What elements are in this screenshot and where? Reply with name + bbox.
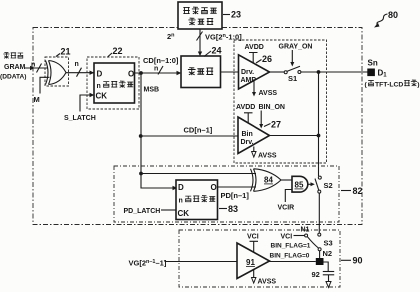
label 26 bbox=[256, 54, 272, 64]
svg-text:Bin: Bin bbox=[242, 131, 253, 138]
label 22 bbox=[108, 46, 123, 57]
svg-text:N2: N2 bbox=[323, 249, 333, 258]
svg-text:D: D bbox=[97, 70, 103, 79]
AVSS supply for 26 bbox=[252, 81, 277, 98]
svg-text:n: n bbox=[31, 62, 35, 69]
svg-text:24: 24 bbox=[212, 46, 222, 56]
svg-text:GRAY_ON: GRAY_ON bbox=[279, 44, 313, 51]
bus slash 2^n / VG[2^n-1:0] bbox=[167, 32, 242, 42]
GRAY_ON control bbox=[279, 44, 313, 67]
control arrow: gate 85 to S2 bbox=[308, 182, 315, 186]
input VG[2^n-1 -1] bbox=[129, 259, 238, 268]
label 27 bbox=[264, 120, 281, 130]
output pad Sn / D1 to TFT-LCD panel bbox=[365, 59, 420, 89]
n-bit latch 22 bbox=[94, 63, 135, 103]
PD_LATCH input bbox=[124, 208, 176, 215]
capacitor 92 bbox=[312, 262, 335, 279]
vci buffer section dashed box 90 bbox=[179, 230, 340, 287]
svg-text:TFT-LCD: TFT-LCD bbox=[375, 82, 403, 89]
input label from GRAM (DDATA) bbox=[0, 52, 27, 80]
svg-text:n: n bbox=[75, 61, 79, 68]
svg-text:VG[2n–1–1]: VG[2n–1–1] bbox=[129, 259, 167, 268]
AVDD supply for 26 bbox=[245, 44, 264, 63]
op-amp 27 Bin Drv bbox=[238, 117, 270, 154]
latch section dashed box 82 bbox=[114, 166, 339, 222]
svg-text:83: 83 bbox=[228, 204, 238, 214]
label 90 bbox=[341, 256, 363, 266]
buffer 91 bbox=[237, 243, 270, 279]
AVSS supply for 27 bbox=[252, 147, 277, 160]
svg-text:n: n bbox=[179, 198, 183, 205]
wire: output column down to S2 bbox=[318, 72, 320, 176]
svg-text:VCIR: VCIR bbox=[278, 205, 295, 212]
svg-text:S1: S1 bbox=[288, 74, 297, 83]
xor gate 84 bbox=[251, 169, 282, 192]
wire: latch22 O to decoder, CD[n-1:0] bus bbox=[135, 56, 182, 75]
latch 22 dashed box bbox=[87, 57, 139, 109]
BIN_FLAG mode labels bbox=[270, 243, 311, 260]
wire: latch83 O to xor 84, PD[n-1] bbox=[218, 187, 257, 200]
xor gate 21 bbox=[46, 61, 67, 85]
svg-text:PD_LATCH: PD_LATCH bbox=[124, 208, 161, 215]
label 21 bbox=[56, 47, 71, 57]
gray level generator box 23 bbox=[178, 2, 222, 29]
svg-text:AVDD: AVDD bbox=[236, 104, 255, 111]
svg-text:VCI: VCI bbox=[281, 234, 293, 241]
node: MSB column wire bbox=[141, 73, 177, 190]
svg-text:80: 80 bbox=[388, 10, 398, 20]
svg-text:(DDATA): (DDATA) bbox=[0, 74, 27, 81]
wire: xor84 to gate 85 bbox=[281, 179, 292, 181]
svg-text:CD[n–1]: CD[n–1] bbox=[184, 126, 213, 135]
VCIR input to gate 85 bbox=[278, 190, 295, 212]
wire: decoder to Drv.AMP bbox=[221, 71, 239, 73]
AVSS supply for 91 bbox=[252, 270, 277, 286]
wire: xor output to latch22 D with n slash bbox=[66, 61, 94, 77]
node: branch to xor 84 top input bbox=[139, 172, 256, 176]
and gate 85 bbox=[292, 176, 308, 192]
op-amp 26 Drv.AMP bbox=[239, 55, 270, 89]
svg-text:23: 23 bbox=[231, 10, 241, 20]
BIN_ON control bbox=[259, 104, 285, 129]
node MSB junction bbox=[139, 71, 159, 93]
svg-text:O: O bbox=[211, 183, 217, 192]
label 82 bbox=[341, 186, 363, 196]
svg-text:2n: 2n bbox=[167, 32, 175, 41]
amplifier section dashed box bbox=[234, 40, 327, 163]
switch S2 bbox=[315, 176, 333, 193]
svg-text:S2: S2 bbox=[324, 181, 333, 190]
outer dashed block 80 bbox=[33, 28, 362, 225]
wire: S2 down to switch S3 bbox=[318, 193, 320, 233]
svg-text:AVSS: AVSS bbox=[258, 153, 277, 160]
svg-text:D: D bbox=[178, 183, 184, 192]
input M to xor bbox=[34, 77, 50, 104]
switch S3 bbox=[308, 233, 333, 258]
wire: generator to decoder bbox=[198, 29, 202, 56]
label 23 bbox=[223, 10, 241, 20]
svg-text:O: O bbox=[128, 70, 134, 79]
AVDD supply for 27 bbox=[236, 104, 255, 123]
wire: buffer 91 to node N2 bbox=[270, 261, 316, 263]
svg-text:n: n bbox=[154, 66, 158, 73]
svg-text:82: 82 bbox=[353, 186, 363, 196]
VCI input at node N1 bbox=[281, 227, 310, 241]
VCI supply for 91 bbox=[247, 234, 259, 253]
svg-text:GRAM: GRAM bbox=[4, 64, 26, 71]
svg-text:S_LATCH: S_LATCH bbox=[64, 115, 96, 122]
svg-text:n: n bbox=[97, 83, 101, 90]
wire: Bin Drv output to output column bbox=[270, 134, 321, 138]
switch S1 bbox=[270, 66, 301, 83]
svg-text:AVSS: AVSS bbox=[258, 279, 277, 286]
label 24 bbox=[204, 46, 222, 57]
decoder 24 bbox=[181, 56, 221, 88]
svg-text:MSB: MSB bbox=[144, 87, 160, 94]
svg-text:BIN_FLAG=1: BIN_FLAG=1 bbox=[271, 243, 311, 250]
xor gate 21 dashed box bbox=[45, 57, 69, 86]
svg-text:Drv.: Drv. bbox=[241, 69, 254, 76]
S_LATCH input to CK bbox=[64, 93, 96, 122]
svg-text:BIN_FLAG=0: BIN_FLAG=0 bbox=[270, 252, 310, 259]
svg-text:84: 84 bbox=[264, 176, 273, 185]
ground arrow below capacitor bbox=[326, 275, 331, 288]
wire: S1 to output pad Sn bbox=[301, 70, 368, 74]
svg-text:VCI: VCI bbox=[247, 234, 259, 241]
svg-text:27: 27 bbox=[271, 120, 281, 130]
svg-text:): ) bbox=[417, 82, 419, 89]
svg-text:91: 91 bbox=[246, 258, 255, 267]
svg-text:(: ( bbox=[365, 82, 368, 89]
svg-text:22: 22 bbox=[113, 46, 123, 56]
svg-text:92: 92 bbox=[312, 270, 320, 279]
latch 83 bbox=[176, 180, 218, 220]
svg-text:CD[n–1:0]: CD[n–1:0] bbox=[143, 56, 179, 65]
wire: DDATA input to XOR with n slash bbox=[24, 62, 48, 73]
svg-text:N1: N1 bbox=[301, 227, 310, 234]
svg-text:AVDD: AVDD bbox=[245, 44, 264, 51]
node N2 pad bbox=[316, 251, 324, 265]
svg-text:Sn: Sn bbox=[368, 59, 378, 68]
svg-text:VG[2n-1:0]: VG[2n-1:0] bbox=[205, 33, 242, 42]
svg-text:90: 90 bbox=[353, 256, 363, 266]
svg-text:S3: S3 bbox=[324, 239, 333, 248]
svg-text:Drv.: Drv. bbox=[241, 139, 254, 146]
svg-text:CK: CK bbox=[96, 92, 108, 101]
svg-text:BIN_ON: BIN_ON bbox=[259, 104, 285, 111]
label 83 bbox=[219, 204, 238, 214]
svg-text:D1: D1 bbox=[378, 69, 388, 79]
label 80 with leader squiggle bbox=[374, 10, 398, 28]
wire: CD[n-1] to Bin Drv bbox=[139, 126, 238, 138]
svg-text:PD[n–1]: PD[n–1] bbox=[221, 191, 250, 200]
svg-text:M: M bbox=[34, 95, 40, 104]
svg-text:21: 21 bbox=[61, 47, 71, 57]
svg-text:26: 26 bbox=[262, 54, 272, 64]
svg-text:85: 85 bbox=[295, 181, 304, 190]
svg-text:CK: CK bbox=[178, 209, 190, 218]
svg-text:AVSS: AVSS bbox=[259, 90, 278, 97]
